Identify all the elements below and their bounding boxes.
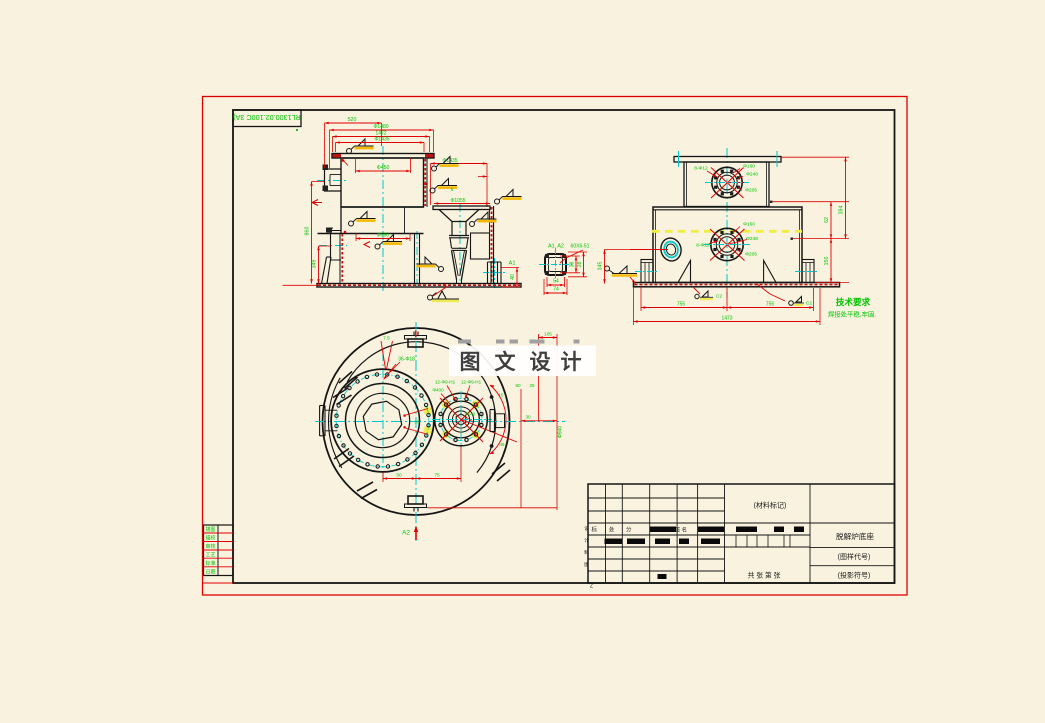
weld symbol right box mirrored [439, 267, 444, 272]
big flange angle dim top [381, 341, 386, 369]
drawing number box top-left [233, 110, 301, 127]
svg-text:Φ960: Φ960 [377, 233, 390, 239]
bottom view casing outer circle [323, 328, 510, 515]
svg-text:8-Φ22: 8-Φ22 [696, 243, 710, 249]
svg-text:Φ160: Φ160 [743, 222, 755, 228]
detail leader [560, 250, 583, 263]
hopper neck [451, 222, 453, 236]
svg-text:C2: C2 [806, 301, 812, 307]
svg-text:共 张 第 张: 共 张 第 张 [748, 571, 781, 580]
side view weld bottom right [770, 294, 785, 301]
bottom view right dims [427, 507, 557, 509]
big flange yellow bolt highlights [423, 407, 432, 416]
svg-text:(图样代号): (图样代号) [838, 552, 871, 561]
title block middle-right dividers [809, 484, 811, 583]
upper flange bolt circle [712, 167, 742, 197]
front view upper shell [341, 158, 424, 207]
svg-text:技术要求: 技术要求 [836, 296, 871, 307]
front view centerline left nozzle lower [319, 245, 347, 247]
front view left nozzle flange lower [327, 228, 341, 260]
svg-text:394: 394 [839, 206, 845, 215]
svg-text:36-Φ18: 36-Φ18 [398, 357, 415, 363]
casing left stub [319, 406, 321, 437]
svg-text:描校: 描校 [205, 535, 215, 542]
title block redaction bars row2 [605, 539, 623, 545]
lower flange bolt circle [711, 228, 743, 260]
bottom view casing inner arc [347, 342, 496, 473]
big flange right leader wedge [404, 409, 428, 416]
svg-text:345: 345 [598, 262, 604, 271]
outlet cylinder [488, 262, 502, 284]
svg-text:74: 74 [553, 287, 559, 293]
front view lower shell top band [318, 233, 424, 235]
detail dims bottom [546, 277, 548, 287]
cyan leg centerlines [635, 271, 659, 273]
svg-text:计: 计 [584, 537, 589, 544]
front view centerline left nozzle upper [317, 180, 347, 182]
weld symbol hopper plate [495, 199, 500, 204]
svg-text:755: 755 [766, 302, 775, 308]
svg-text:60X6-51: 60X6-51 [571, 244, 590, 250]
svg-text:审核: 审核 [205, 543, 215, 550]
svg-text:焊接处平稳,牢固.: 焊接处平稳,牢固. [828, 310, 877, 319]
front view mid shell band [341, 206, 424, 208]
svg-text:Φ400: Φ400 [432, 388, 444, 393]
svg-text:Φ205: Φ205 [745, 252, 757, 258]
front view centerline cone [459, 204, 461, 284]
svg-text:计: 计 [561, 350, 582, 374]
svg-text:Φ248: Φ248 [746, 236, 758, 242]
front view lower left wall hatch [339, 234, 341, 284]
svg-text:RL1300.02.100C 3A): RL1300.02.100C 3A) [233, 113, 301, 122]
svg-text:105: 105 [544, 332, 552, 337]
svg-text:Φ546: Φ546 [465, 412, 476, 417]
front view lower chamber walls [414, 234, 416, 284]
small flange hexagon [456, 414, 466, 425]
title block redaction bar row3 [658, 574, 667, 579]
svg-text:75: 75 [434, 472, 440, 478]
side view top plate cyan ticks [678, 151, 680, 167]
svg-text:分: 分 [626, 526, 632, 534]
inner black frame [233, 110, 895, 583]
left gusset [678, 261, 691, 283]
big flange outer circle [331, 369, 434, 472]
front view centerline lower hopper [416, 231, 418, 290]
svg-text:设: 设 [530, 350, 551, 374]
casing diagonal lug upper-left B [333, 388, 348, 398]
svg-text:制: 制 [584, 549, 589, 556]
bottom view main centerline vertical [415, 322, 417, 541]
weld symbol cone [470, 222, 475, 227]
small flange red cross [440, 398, 483, 442]
weld symbol lower shell left [349, 221, 354, 226]
svg-text:(投影符号): (投影符号) [838, 571, 871, 580]
front view left nozzle flange upper [325, 169, 342, 191]
side view top plate [674, 157, 781, 163]
side view left channel leg [641, 260, 653, 283]
svg-text:150: 150 [824, 257, 830, 266]
svg-text:40: 40 [510, 274, 516, 280]
svg-text:Φ1435: Φ1435 [374, 137, 389, 143]
weld symbol lower chamber [375, 244, 380, 249]
svg-text:Φ160: Φ160 [743, 164, 755, 170]
big flange inner polygon [363, 401, 401, 439]
weld symbol right of top plate [432, 166, 437, 171]
svg-text:5: 5 [451, 187, 454, 193]
svg-text:日期: 日期 [205, 569, 215, 575]
casing right stub [489, 410, 491, 432]
front view base plate [317, 284, 521, 288]
upper flange red diagonals [711, 168, 744, 199]
svg-text:(材料标记): (材料标记) [754, 501, 787, 510]
svg-text:A2: A2 [402, 530, 410, 537]
right gusset [764, 261, 776, 283]
svg-text:Φ1480: Φ1480 [373, 124, 388, 130]
right inner box [471, 233, 490, 259]
red leader top plate left [341, 158, 348, 166]
svg-text:Φ248: Φ248 [746, 172, 758, 178]
top stacked dims front view [324, 123, 326, 168]
svg-text:文: 文 [495, 350, 517, 374]
svg-text:Φ1055: Φ1055 [450, 198, 465, 204]
small flange angled radius [461, 420, 517, 443]
svg-text:描图: 描图 [205, 526, 215, 533]
svg-text:12-Φ9-H1: 12-Φ9-H1 [461, 380, 482, 385]
big flange inner circle [355, 393, 409, 447]
front view centerline outlet cylinder [494, 258, 496, 290]
dim phi450 inside shell [355, 158, 357, 173]
cone [452, 250, 467, 279]
svg-text:3C: 3C [414, 420, 420, 425]
casing diagonal lug upper-left A [339, 372, 352, 384]
section arrow lower [364, 242, 370, 248]
dim phi1055 hopper [434, 203, 490, 205]
casing diagonal lug lower-left B [357, 482, 373, 491]
side view left dim [605, 249, 657, 251]
outer red border [203, 97, 908, 596]
casing bottom lug [408, 496, 423, 504]
title block redaction bars row1 [650, 527, 676, 533]
watermark background [449, 346, 596, 377]
small flange outer circle [435, 393, 488, 446]
front view centerline cylinder horizontal [483, 272, 505, 274]
svg-text:54: 54 [553, 279, 559, 285]
big flange bolt ring [336, 374, 429, 467]
side view right channel leg [802, 260, 814, 283]
small flange yellow highlights [472, 430, 480, 438]
casing top lug [413, 332, 415, 336]
svg-text:30: 30 [525, 415, 531, 420]
svg-text:38: 38 [570, 262, 576, 268]
side view centerline vertical [726, 148, 728, 298]
svg-text:处: 处 [609, 526, 615, 534]
front view right wall hatch [493, 206, 495, 284]
svg-text:8-Φ12: 8-Φ12 [694, 166, 708, 172]
lower flange red diagonals [710, 229, 745, 261]
svg-text:设: 设 [584, 525, 589, 532]
svg-text:7.5: 7.5 [383, 336, 390, 342]
side view right dims [782, 156, 850, 158]
left margin signature table [204, 525, 234, 576]
svg-text:工艺: 工艺 [205, 552, 215, 558]
small flange ring [443, 401, 480, 438]
hopper top plate [433, 206, 490, 210]
svg-text:50: 50 [396, 472, 402, 478]
dim phi1435 hopper [431, 163, 488, 165]
red margin line bottom-left [203, 582, 233, 584]
svg-text:28: 28 [577, 262, 583, 268]
section arrow A left [312, 200, 322, 206]
detail A1 A2 square tube section [545, 254, 566, 275]
svg-text:Z: Z [590, 584, 593, 590]
svg-text:45: 45 [500, 442, 505, 447]
big flange centerline vertical [382, 352, 384, 482]
svg-text:349: 349 [312, 260, 318, 269]
side view weld below base center [693, 287, 700, 294]
front view top cover plate [332, 154, 434, 159]
right hopper dim extension lines [430, 164, 432, 206]
front view left support leg [322, 257, 327, 284]
weld symbol below base with V flag [428, 295, 433, 300]
upper flange cyan cross [705, 182, 749, 184]
svg-text:62: 62 [824, 217, 830, 223]
svg-text:520: 520 [348, 117, 357, 123]
detail dims right [560, 255, 580, 257]
svg-text:标: 标 [592, 526, 598, 534]
weld symbol right shell [430, 188, 435, 193]
small flange angle arc dim [490, 385, 506, 454]
title block middle small cells [735, 535, 737, 547]
front view centerline vertical [382, 146, 384, 292]
small flange inner circles [448, 407, 473, 432]
side view bottom dims [633, 287, 635, 325]
svg-text:图: 图 [460, 350, 481, 374]
hopper trapezoid [439, 210, 479, 222]
side view upper box [684, 162, 769, 207]
manhole leader red [630, 249, 668, 251]
bottom view main centerline horizontal [315, 421, 565, 423]
small flange bolt ring cyan [440, 398, 482, 440]
casing diagonal lug lower-right [492, 463, 505, 474]
svg-text:755: 755 [677, 302, 686, 308]
left vertical dims front view [312, 181, 325, 183]
bowl rim [449, 235, 469, 237]
svg-text:860: 860 [305, 227, 311, 236]
svg-text:60: 60 [515, 383, 521, 388]
side view base plate [634, 283, 840, 287]
side view weld bottom-left [605, 266, 610, 271]
svg-text:脱解炉底座: 脱解炉底座 [836, 531, 874, 541]
lower flange cyan cross [704, 244, 750, 246]
bottom view A2 arrow [415, 527, 417, 540]
big flange middle circle [346, 384, 420, 458]
yellow section line [652, 230, 802, 233]
svg-text:12-Φ9-H1: 12-Φ9-H1 [435, 380, 456, 385]
svg-text:1473: 1473 [721, 316, 732, 322]
dim phi960 lower chamber [355, 234, 357, 242]
title block left grid [605, 484, 607, 583]
bottom view dims [382, 473, 384, 483]
detail centerlines [539, 264, 572, 266]
svg-text:C2: C2 [716, 294, 722, 300]
svg-text:Φ940: Φ940 [558, 426, 564, 439]
side view main box [653, 207, 802, 283]
title block outer [588, 484, 895, 583]
svg-text:Φ205: Φ205 [745, 188, 757, 194]
casing diagonal lug lower-left A [334, 449, 349, 460]
small flange centerlines [432, 419, 492, 421]
watermark clipped row above [458, 340, 471, 344]
svg-text:A1: A1 [508, 261, 515, 267]
svg-text:25: 25 [529, 383, 535, 388]
svg-text:Φ450: Φ450 [377, 165, 390, 171]
weld symbol above top plate [347, 149, 352, 154]
bottom view casing left inner arc [328, 378, 341, 468]
svg-text:标准: 标准 [205, 560, 215, 567]
svg-text:15: 15 [499, 393, 504, 398]
front view upper shell right wall hatch [426, 158, 428, 207]
svg-text:签 名: 签 名 [675, 526, 687, 534]
manhole ellipse [659, 236, 684, 263]
front view inner wall [404, 208, 406, 234]
